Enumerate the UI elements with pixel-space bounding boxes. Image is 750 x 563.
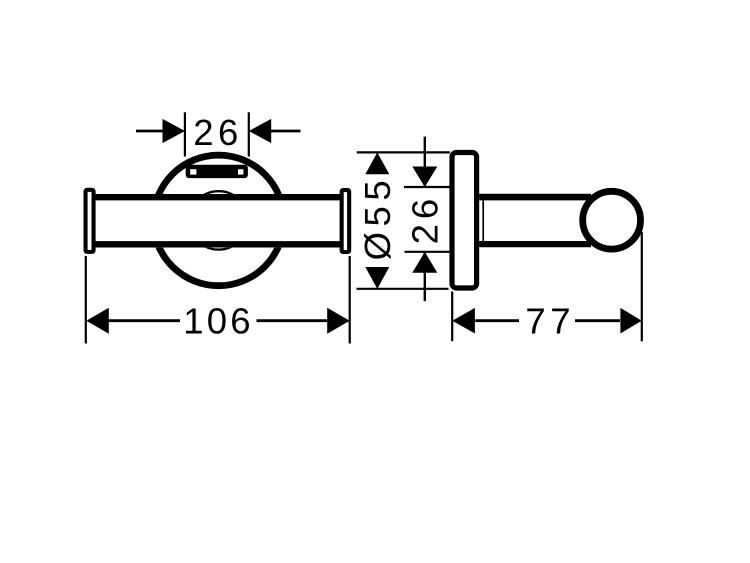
dimension 26 (side view, vertical): line tails [424,137,426,187]
svg-text:77: 77 [525,301,575,342]
side view: wall plate [452,153,477,289]
front view: bar bottom edge [96,241,341,247]
dimension 77: arrows [452,308,475,334]
dimension 26 (side): extension lines [404,186,450,188]
svg-text:26: 26 [193,112,243,153]
dimension 106: arrows [86,308,109,334]
dimension 26 (top): extension lines [184,112,186,156]
dimension 77: dimension line [475,319,519,322]
front view: inner circle [189,191,247,249]
front view: bar top edge [96,194,341,200]
dimension O55 (middle): extension lines [357,151,450,153]
dimension 26 (side): arrows [412,167,437,188]
dimension 77: extension lines [451,292,453,342]
front view: right end cap [340,188,352,254]
side view: arm bottom edge [479,241,591,247]
dimension O55: arrows [365,152,389,174]
svg-text:26: 26 [404,194,445,245]
dimension 26 (top): leader tails [136,130,164,133]
front view: bar body [96,194,341,248]
front view: outer flange circle O55 [153,155,284,286]
side view: ball knob [583,191,641,249]
front view: left end cap [84,188,96,254]
dimension 26 (top): arrows [163,119,185,143]
svg-text:Ø55: Ø55 [357,175,398,261]
side view: arm-plate junction line [482,199,484,243]
side view: arm body [480,195,590,245]
dimension 106: dimension line [108,319,180,322]
svg-text:106: 106 [183,301,254,342]
front view: wall bracket slot [186,165,248,178]
dimension 106 (bottom left): extension lines [85,256,87,344]
side view: arm top edge [479,194,591,201]
